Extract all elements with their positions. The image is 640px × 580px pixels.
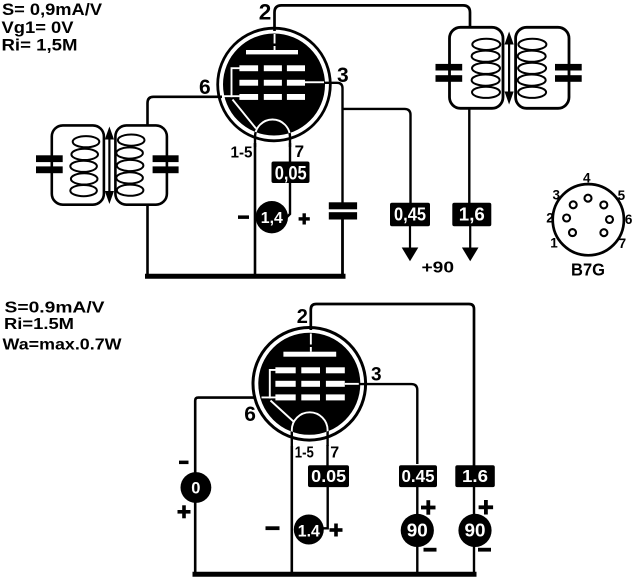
minus sign battery 1.4 <box>266 526 280 530</box>
wire screen pin 3 to 0.45 meter <box>356 384 417 464</box>
tube V2 screen lead to pin 3 (white) <box>345 383 359 385</box>
svg-text:1,4: 1,4 <box>261 210 283 227</box>
tube V1 envelope <box>218 28 331 141</box>
B7G pin 7 hole <box>600 229 607 236</box>
svg-text:7: 7 <box>619 236 627 251</box>
svg-text:7: 7 <box>330 444 339 461</box>
wire 0.05 label to battery 1.4 <box>324 486 328 528</box>
current label 0.05 (V2) <box>308 465 349 487</box>
svg-text:S=0.9mA/V: S=0.9mA/V <box>5 300 105 317</box>
svg-text:1.4: 1.4 <box>298 521 320 540</box>
tube V1 grid strap (white) <box>224 68 240 97</box>
current label 0,05 <box>272 162 310 184</box>
svg-text:1,6: 1,6 <box>459 204 485 225</box>
minus sign battery 90 anode <box>478 548 491 552</box>
tube V2 anode plate <box>283 352 336 357</box>
tube V2 grid g1 row <box>275 394 295 400</box>
transformer T1 secondary turns <box>116 135 144 196</box>
B7G pin 1 hole <box>569 229 576 236</box>
svg-text:Vg1= 0V: Vg1= 0V <box>2 19 74 37</box>
wire T1 secondary bottom to rail <box>146 204 149 275</box>
transformer T1 right coil frame <box>115 125 166 204</box>
wire 0,05 label to battery 1,4 <box>287 183 290 217</box>
wire 1.6 label to battery 90 anode <box>473 487 475 574</box>
wire filament pin 1-5 to rail <box>254 143 257 275</box>
tube V1 screen lead to pin 3 (white) <box>305 81 324 83</box>
plus sign battery 1,4 <box>299 217 310 220</box>
svg-text:0.45: 0.45 <box>402 466 435 486</box>
svg-text:3: 3 <box>371 365 382 386</box>
svg-text:2: 2 <box>297 306 308 328</box>
minus sign battery 90 screen <box>424 548 437 552</box>
wire T1 secondary top to grid pin 6 <box>148 97 223 126</box>
svg-text:90: 90 <box>465 521 486 541</box>
svg-text:0,45: 0,45 <box>394 204 426 225</box>
capacitor C2 plates (T1 secondary) <box>153 155 179 162</box>
transformer T1 left coil frame <box>52 125 104 204</box>
svg-text:1.6: 1.6 <box>462 466 488 486</box>
capacitor C4 plates <box>436 64 463 71</box>
svg-text:6: 6 <box>625 212 633 227</box>
tube V1 black interior <box>223 34 325 136</box>
svg-text:1: 1 <box>550 236 558 251</box>
wire anode pin 2 to top rail and T2 <box>275 5 471 31</box>
svg-text:3: 3 <box>337 64 349 87</box>
tube V2 black interior <box>258 333 360 435</box>
transformer T2 secondary turns <box>518 39 547 98</box>
T1 variable coupling arrow <box>105 127 114 205</box>
battery 90 V screen <box>401 514 434 547</box>
arrow 0,45 to +90 <box>409 226 411 250</box>
plus sign battery 90 screen <box>421 506 436 510</box>
svg-text:90: 90 <box>407 521 428 541</box>
transformer T2 primary turns <box>472 39 501 98</box>
wire C3 to rail <box>341 219 344 275</box>
wire 0.45 label to battery 90 <box>416 487 418 574</box>
svg-text:7: 7 <box>295 142 304 161</box>
current label 0,45 <box>390 203 430 227</box>
capacitor C1 plates (T1 primary) <box>36 155 63 162</box>
svg-text:0.05: 0.05 <box>311 466 346 486</box>
tube V1 anode lead (white) <box>274 34 276 44</box>
wire screen pin 3 down to C3 <box>321 83 343 203</box>
svg-text:Ri=1.5M: Ri=1.5M <box>4 316 74 333</box>
svg-text:B7G: B7G <box>571 260 605 280</box>
svg-text:1-5: 1-5 <box>231 144 253 161</box>
battery 90 V anode <box>458 514 491 547</box>
wire screen branch to 0,45 meter <box>344 109 411 203</box>
ground rail (bottom circuit) <box>193 572 477 577</box>
tube V2 filament dome (outside) <box>292 412 328 446</box>
svg-text:+90: +90 <box>422 260 455 277</box>
plus sign battery 1.4 <box>330 528 343 532</box>
arrow 1,6 to +90 <box>469 226 471 250</box>
tube V1 grid g3 row <box>239 65 258 71</box>
tube V2 grid strap (white) <box>262 370 277 399</box>
wire grid pin 6 to bias battery <box>195 398 254 573</box>
battery 0 V grid bias <box>181 472 212 503</box>
tube V1 anode plate <box>246 50 298 54</box>
B7G pin 6 hole <box>606 216 613 223</box>
svg-text:0,05: 0,05 <box>275 164 307 185</box>
capacitor C3 plates <box>329 202 357 209</box>
tube V2 grid g2 row <box>275 381 295 387</box>
svg-text:3: 3 <box>552 188 560 203</box>
svg-text:6: 6 <box>244 403 256 426</box>
tube V1 grid g1 row <box>239 94 258 100</box>
tube V1 filament dome (inside) <box>255 120 290 148</box>
minus sign battery 0 <box>179 461 189 465</box>
tube V2 anode lead (white) <box>310 334 312 345</box>
tube V2 envelope <box>253 328 366 441</box>
capacitor C5 plates <box>555 64 582 71</box>
tube V2 g3-filament internal link (white diagonal) <box>271 401 294 422</box>
wire T2 primary bottom to 1,6 meter <box>468 109 470 204</box>
svg-text:4: 4 <box>583 170 591 185</box>
tube V1 g3-filament internal link (white diagonal) <box>233 100 257 129</box>
transformer T2 left coil frame <box>450 27 504 108</box>
svg-text:2: 2 <box>546 211 554 226</box>
tube V2 filament dome (inside) <box>292 412 328 446</box>
transformer T2 right coil frame <box>516 27 569 108</box>
battery 1.4 V filament (V2) <box>294 515 324 545</box>
svg-text:2: 2 <box>259 0 272 25</box>
tube V1 filament dome (outside) <box>255 120 290 148</box>
wire filament pin 7 to 0,05 label <box>289 143 291 163</box>
svg-text:Ri= 1,5M: Ri= 1,5M <box>2 37 78 55</box>
tube V2 grid g3 row <box>275 367 295 373</box>
wire filament pin 1-5 to rail <box>290 446 293 573</box>
B7G pin 3 hole <box>570 201 577 208</box>
svg-text:6: 6 <box>199 76 211 99</box>
B7G pin 5 hole <box>600 201 607 208</box>
svg-text:Wa=max.0.7W: Wa=max.0.7W <box>3 337 123 354</box>
svg-text:1-5: 1-5 <box>295 444 314 461</box>
current label 1,6 <box>452 203 491 227</box>
B7G pin 2 hole <box>563 215 570 222</box>
current label 1.6 (V2) <box>455 465 495 487</box>
current label 0.45 (V2) <box>399 465 437 487</box>
minus sign battery 1,4 <box>238 215 249 219</box>
plus sign battery 90 anode <box>479 505 494 509</box>
wire anode pin 2 to HT rail <box>311 304 474 466</box>
svg-text:5: 5 <box>618 188 626 203</box>
B7G base outline <box>553 184 624 255</box>
plus sign battery 0 <box>178 510 191 514</box>
battery 1,4 V filament <box>256 201 288 233</box>
svg-text:S= 0,9mA/V: S= 0,9mA/V <box>2 1 102 19</box>
svg-text:0: 0 <box>191 480 200 498</box>
wire filament pin 7 to 0.05 label <box>326 445 328 467</box>
transformer T1 primary turns <box>70 136 99 196</box>
T2 variable coupling arrow <box>505 32 514 105</box>
ground rail (top circuit) <box>145 274 346 279</box>
tube V1 grid g2 row <box>239 80 258 86</box>
B7G pin 4 hole <box>585 195 592 202</box>
